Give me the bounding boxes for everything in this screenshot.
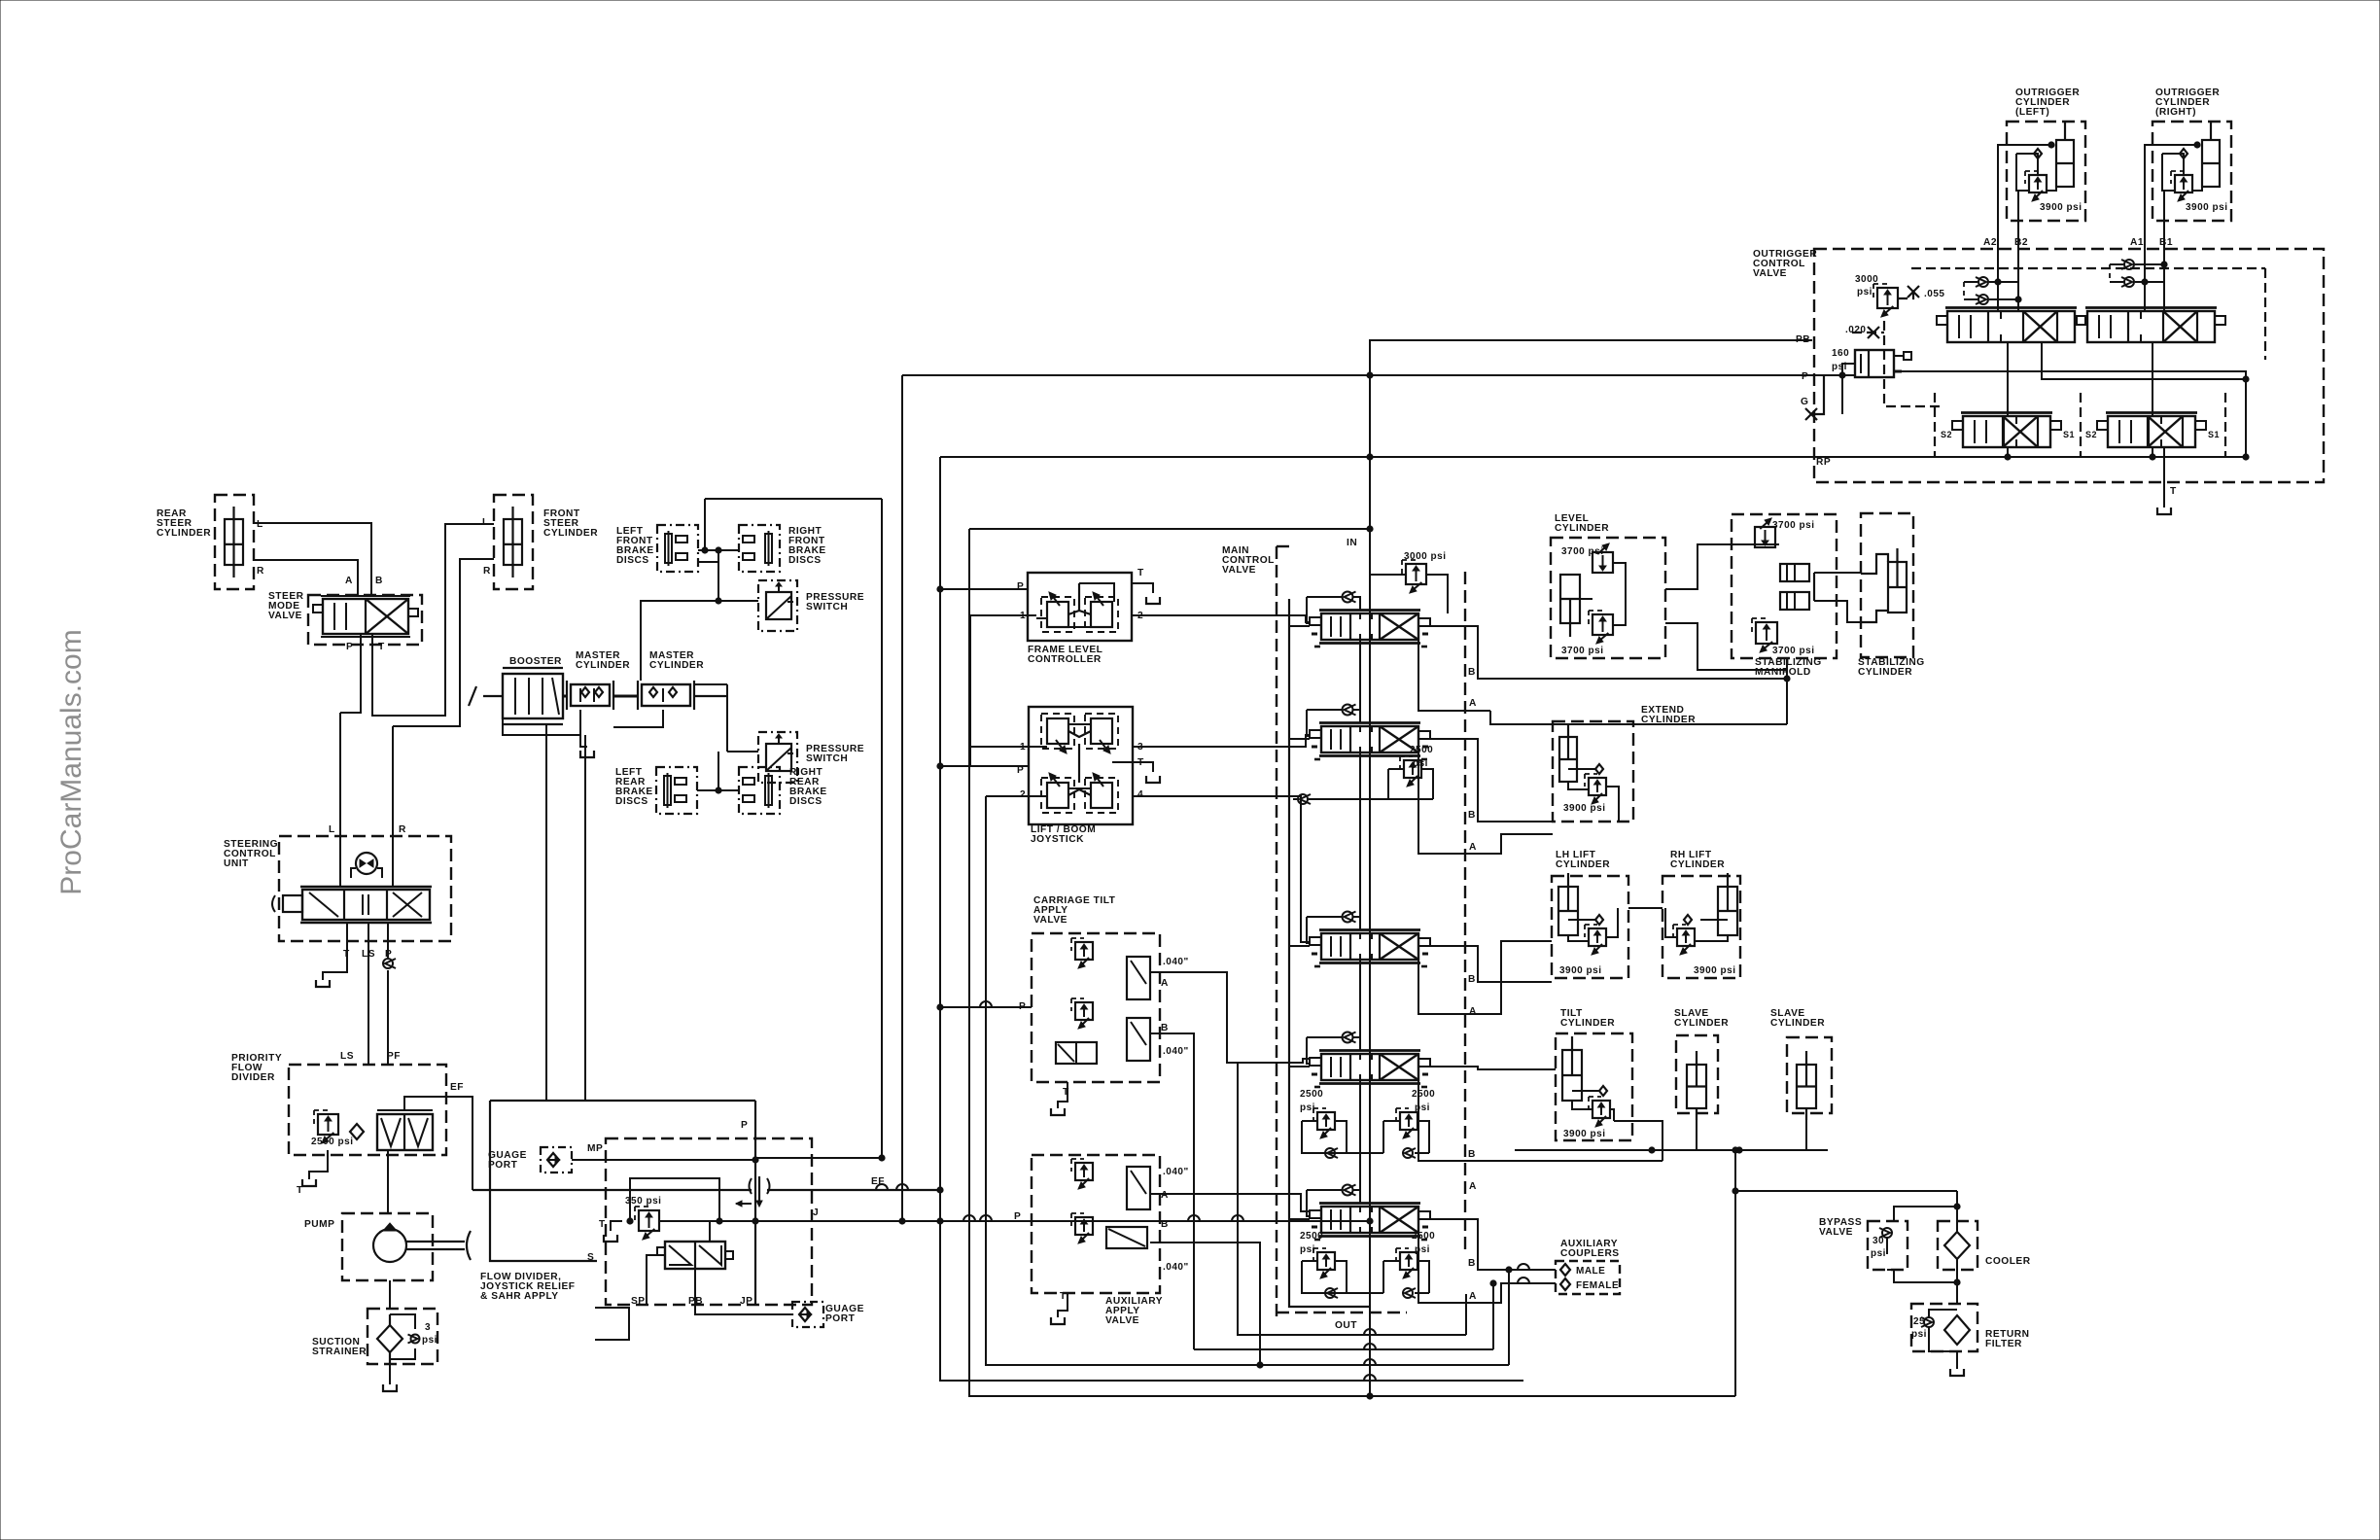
pump bbox=[342, 1213, 471, 1280]
svg-text:psi: psi bbox=[1911, 1329, 1927, 1340]
wire spool1 A down bbox=[1418, 640, 1490, 711]
wire s5r loop bbox=[1382, 1261, 1384, 1293]
svg-text:CYLINDER: CYLINDER bbox=[649, 660, 704, 671]
ocv box bbox=[1814, 249, 2324, 482]
svg-text:S1: S1 bbox=[2208, 430, 2220, 439]
return filter bbox=[1911, 1304, 1977, 1351]
wire aux P stub bbox=[1011, 1220, 1032, 1222]
slave cylinder 1 bbox=[1676, 1035, 1718, 1120]
wire 1 vertical bbox=[969, 615, 971, 766]
svg-text:B: B bbox=[1468, 667, 1476, 678]
wire s4l relief in bbox=[1302, 1120, 1317, 1122]
svg-text:SP: SP bbox=[631, 1296, 646, 1307]
svg-text:B2: B2 bbox=[2014, 237, 2028, 248]
wire valve top bbox=[709, 1221, 711, 1242]
check block 1 bbox=[1780, 564, 1809, 581]
svg-text:B: B bbox=[1468, 1258, 1476, 1269]
riser male bbox=[1508, 1270, 1510, 1365]
check s2 loop bbox=[1298, 794, 1311, 804]
label front steer cylinder bbox=[543, 508, 598, 539]
slave1 body bbox=[1687, 1051, 1706, 1108]
relief valve bbox=[2171, 171, 2192, 201]
svg-text:VALVE: VALVE bbox=[1819, 1227, 1853, 1238]
wire P line bbox=[902, 374, 1812, 376]
svg-text:S1: S1 bbox=[2063, 430, 2075, 439]
svg-text:B: B bbox=[1468, 1149, 1476, 1160]
wire spool2 A bbox=[1418, 752, 1553, 854]
svg-text:VALVE: VALVE bbox=[1753, 268, 1787, 279]
wire between rear discs bbox=[697, 789, 739, 791]
mcv dashed left bbox=[1276, 546, 1277, 1318]
wire sm-sc bot bbox=[1814, 601, 1861, 622]
svg-text:G: G bbox=[1801, 397, 1808, 407]
slave2 body bbox=[1797, 1051, 1816, 1108]
svg-text:2500: 2500 bbox=[1300, 1231, 1323, 1242]
svg-text:COOLER: COOLER bbox=[1985, 1256, 2031, 1267]
svg-text:VALVE: VALVE bbox=[268, 611, 302, 621]
wire s5l relief out bbox=[1335, 1261, 1347, 1293]
svg-text:UNIT: UNIT bbox=[224, 858, 249, 869]
ct valve T tank bbox=[1058, 1082, 1067, 1108]
tank bbox=[1146, 776, 1160, 783]
svg-text:.020: .020 bbox=[1845, 325, 1866, 335]
svg-text:CYLINDER: CYLINDER bbox=[1670, 859, 1725, 870]
wire s4l relief out bbox=[1335, 1121, 1347, 1153]
label guage port mp bbox=[488, 1150, 527, 1171]
label master cylinder 1 bbox=[576, 650, 630, 671]
steering control unit bbox=[272, 836, 451, 941]
outrigger cylinder (LEFT) bbox=[2007, 122, 2085, 221]
bypass valve bbox=[1868, 1221, 1907, 1270]
prop valve A bbox=[1127, 957, 1150, 999]
wire tilt out bbox=[1614, 1121, 1662, 1161]
relief 3700 sm top bbox=[1755, 518, 1775, 547]
svg-text:CYLINDER: CYLINDER bbox=[1674, 1018, 1729, 1029]
tank bbox=[383, 1384, 397, 1391]
svg-text:VALVE: VALVE bbox=[1033, 915, 1067, 926]
svg-text:B: B bbox=[1161, 1219, 1169, 1230]
wires around 3000 relief bbox=[1852, 332, 1884, 333]
wire spool in bbox=[1289, 625, 1310, 627]
wire check feed bbox=[1307, 916, 1342, 918]
svg-text:VALVE: VALVE bbox=[1105, 1315, 1139, 1326]
label stabilizing manifold bbox=[1755, 657, 1822, 678]
pilot valve bbox=[1041, 592, 1074, 632]
relief tilt bbox=[1589, 1097, 1610, 1127]
svg-text:PORT: PORT bbox=[488, 1160, 518, 1171]
svg-text:psi: psi bbox=[1857, 287, 1872, 297]
breakaway coupling EF bbox=[758, 1176, 760, 1206]
check valve spool 1 bbox=[1343, 592, 1356, 603]
wire RP line bbox=[940, 456, 1812, 458]
wire spool5 B bbox=[1430, 1219, 1556, 1270]
svg-text:CONTROLLER: CONTROLLER bbox=[1028, 654, 1102, 665]
extend cyl body bbox=[1559, 723, 1577, 782]
wire lh-rh bbox=[1628, 907, 1662, 909]
svg-text:IN: IN bbox=[1347, 538, 1357, 548]
label main control valve bbox=[1222, 545, 1275, 576]
svg-text:3000: 3000 bbox=[1855, 274, 1878, 285]
svg-text:MP: MP bbox=[587, 1143, 603, 1154]
svg-text:P: P bbox=[1802, 371, 1808, 382]
relief valve bbox=[2025, 171, 2047, 201]
valve spool bbox=[1310, 1204, 1430, 1241]
svg-text:psi: psi bbox=[1415, 1102, 1430, 1113]
wire 1 to FLC bbox=[970, 614, 1036, 616]
svg-text:3700 psi: 3700 psi bbox=[1561, 546, 1603, 557]
svg-text:psi: psi bbox=[1300, 1244, 1315, 1255]
svg-text:CYLINDER: CYLINDER bbox=[157, 528, 211, 539]
wire T joystick bbox=[1112, 762, 1153, 772]
label outrigger cylinder right bbox=[2155, 87, 2220, 118]
stabilizing cylinder bbox=[1861, 513, 1913, 657]
wire T ocv bbox=[2163, 447, 2165, 507]
wire disc junction down bbox=[717, 550, 719, 601]
svg-text:.040": .040" bbox=[1163, 1046, 1189, 1057]
label slave cylinder 2 bbox=[1770, 1008, 1825, 1029]
svg-text:BOOSTER: BOOSTER bbox=[509, 656, 562, 667]
label return filter bbox=[1985, 1329, 2029, 1349]
orifice .020 bbox=[1868, 327, 1879, 338]
svg-text:B: B bbox=[1468, 810, 1476, 821]
svg-text:CYLINDER: CYLINDER bbox=[1555, 523, 1609, 534]
mcv dashed right bbox=[1464, 572, 1466, 1254]
label lift boom joystick bbox=[1031, 824, 1096, 845]
wire mc2 to ps2 bbox=[726, 684, 728, 752]
label pressure switch 1 bbox=[806, 592, 864, 612]
lh lift cylinder bbox=[1552, 873, 1628, 978]
label guage port bbox=[825, 1304, 864, 1324]
wire spool in bbox=[1289, 1066, 1310, 1067]
wire s4r relief out bbox=[1417, 1121, 1429, 1153]
svg-text:160: 160 bbox=[1832, 348, 1849, 359]
level cyl body bbox=[1560, 575, 1580, 637]
ocv inner dash 1 bbox=[1884, 321, 1944, 406]
svg-text:A: A bbox=[1161, 978, 1169, 989]
SCU T drop to tank bbox=[323, 923, 347, 980]
svg-text:STRAINER: STRAINER bbox=[312, 1347, 367, 1357]
level cylinder bbox=[1551, 538, 1665, 658]
tank bbox=[1950, 1369, 1964, 1376]
relief 2500 s5r bbox=[1396, 1248, 1417, 1278]
wire to bypass bbox=[1894, 1207, 1957, 1221]
check valve spool 4 bbox=[1343, 1032, 1356, 1043]
slave cylinder 2 bbox=[1787, 1037, 1832, 1120]
priority flow divider bbox=[289, 1065, 446, 1155]
label right front brake discs bbox=[788, 526, 826, 566]
svg-text:A: A bbox=[1469, 1181, 1477, 1192]
suction strainer bbox=[367, 1309, 437, 1364]
wire check to spool bbox=[1353, 597, 1360, 611]
svg-text:S2: S2 bbox=[2085, 430, 2097, 439]
wire aux B bbox=[1150, 1242, 1260, 1365]
brake disc bbox=[656, 767, 697, 814]
wire rh check bbox=[1700, 919, 1728, 921]
ocv inner dash top bbox=[1911, 267, 2265, 269]
label rear steer cylinder bbox=[157, 508, 211, 539]
reducing valve 2 bbox=[1071, 998, 1093, 1029]
label outrigger cylinder left bbox=[2015, 87, 2080, 118]
outrigger cylinder (RIGHT) bbox=[2152, 122, 2231, 221]
trunk vertical x907 bbox=[705, 498, 882, 500]
label pressure switch 2 bbox=[806, 744, 864, 764]
label tilt cylinder bbox=[1560, 1008, 1615, 1029]
wire out 1 bbox=[1238, 1063, 1466, 1335]
wire 2 to MCV bbox=[1132, 615, 1310, 622]
wire J long bbox=[659, 1220, 1370, 1222]
FLC T drop bbox=[1132, 583, 1153, 593]
wire P to FLC bbox=[940, 588, 1028, 590]
check block 2 bbox=[1780, 592, 1809, 610]
svg-text:3000 psi: 3000 psi bbox=[1404, 551, 1446, 562]
check valve SCU bbox=[383, 959, 396, 968]
wire feed corner bbox=[1307, 1190, 1310, 1216]
G orifice bbox=[1805, 375, 1824, 420]
tank bbox=[1146, 597, 1160, 604]
wire tilt check bbox=[1572, 1090, 1599, 1092]
wire booster down to flow divider block bbox=[545, 724, 547, 1101]
svg-text:OUT: OUT bbox=[1335, 1320, 1357, 1331]
check valve spool 2 bbox=[1343, 705, 1356, 716]
wire MP bbox=[572, 1159, 755, 1161]
master cylinder 1 bbox=[567, 681, 613, 710]
svg-text:A1: A1 bbox=[2130, 237, 2144, 248]
sahr valve bbox=[657, 1242, 733, 1269]
svg-text:2500 psi: 2500 psi bbox=[311, 1137, 353, 1147]
wire tilt relief out bbox=[1610, 1109, 1614, 1121]
wire A bbox=[1150, 972, 1310, 1063]
svg-text:T: T bbox=[1137, 568, 1144, 578]
svg-text:R: R bbox=[399, 824, 406, 835]
front steer cylinder box bbox=[494, 495, 533, 589]
wire spool-s2 r bbox=[2152, 342, 2153, 416]
wire slave bottom bbox=[1515, 1149, 1828, 1151]
ocv s2 box l bbox=[1934, 393, 1936, 457]
svg-text:PORT: PORT bbox=[825, 1313, 856, 1324]
valve spool bbox=[1310, 723, 1430, 760]
svg-text:2500: 2500 bbox=[1410, 745, 1433, 755]
outrigger valve spool bbox=[2097, 413, 2206, 448]
relief 350 psi bbox=[635, 1207, 659, 1240]
wire s5r relief in bbox=[1383, 1260, 1400, 1262]
check valve spool 3 bbox=[1343, 912, 1356, 923]
svg-text:CYLINDER: CYLINDER bbox=[1560, 1018, 1615, 1029]
svg-text:CYLINDER: CYLINDER bbox=[1770, 1018, 1825, 1029]
wire to 160 valve bbox=[1842, 364, 1855, 375]
wire bypass out bbox=[1887, 1270, 1957, 1282]
brake disc bbox=[739, 767, 780, 814]
relief 3700 bottom bbox=[1589, 611, 1613, 644]
brake disc bbox=[739, 525, 780, 572]
wire aux T bbox=[1058, 1293, 1067, 1317]
label left rear brake discs bbox=[615, 767, 653, 807]
label master cylinder 2 bbox=[649, 650, 704, 671]
wire mc1 to ps1 bbox=[641, 601, 758, 681]
gauge port bbox=[792, 1302, 823, 1327]
wire A1 bbox=[2144, 160, 2146, 311]
wire spool4 B bbox=[1430, 1067, 1556, 1069]
svg-text:3900 psi: 3900 psi bbox=[1563, 1129, 1605, 1139]
pilot valve bbox=[1085, 714, 1118, 753]
svg-text:T: T bbox=[297, 1185, 303, 1196]
wire tilt relief in bbox=[1572, 1101, 1592, 1109]
ocv check R2 bbox=[2121, 277, 2134, 287]
tank bbox=[580, 751, 594, 757]
wire gallery bbox=[1359, 1080, 1361, 1204]
svg-text:CYLINDER: CYLINDER bbox=[1641, 715, 1696, 725]
tank bbox=[2157, 507, 2171, 514]
ocv check L1 bbox=[1976, 277, 1988, 287]
label left front brake discs bbox=[616, 526, 654, 566]
wire ps2 junction bbox=[717, 752, 719, 790]
label level cylinder bbox=[1555, 513, 1609, 534]
svg-text:SWITCH: SWITCH bbox=[806, 753, 848, 764]
wire G branch bbox=[1841, 375, 1843, 414]
relief 3700 sm bottom bbox=[1752, 618, 1777, 652]
wire spool3 A bbox=[1418, 941, 1552, 1014]
svg-text:B: B bbox=[1468, 974, 1476, 985]
svg-text:30: 30 bbox=[1872, 1236, 1884, 1246]
relief 2500 s4r bbox=[1396, 1108, 1417, 1138]
wire spool-s2 bbox=[2007, 342, 2009, 416]
orifice .055 bbox=[1907, 286, 1919, 297]
wire PB and main trunk bbox=[1370, 340, 1812, 1232]
pressure switch bbox=[758, 732, 797, 783]
wire spool out r bbox=[2042, 342, 2246, 379]
frame level controller bbox=[1028, 573, 1132, 641]
orifice cross .055 bbox=[1907, 286, 1919, 297]
pump suction line bbox=[389, 1280, 391, 1309]
svg-text:2500: 2500 bbox=[1300, 1089, 1323, 1100]
outrigger valve spool bbox=[1952, 413, 2061, 448]
relief rh bbox=[1673, 925, 1695, 955]
wire tilt manifold bbox=[1501, 1160, 1662, 1162]
svg-text:psi: psi bbox=[1413, 758, 1428, 769]
label auxiliary apply valve bbox=[1105, 1296, 1163, 1326]
EF wire from PFD bbox=[404, 1097, 472, 1190]
wire rh relief in bbox=[1695, 935, 1728, 941]
relief lh bbox=[1585, 925, 1606, 955]
prop valve A2 bbox=[1127, 1167, 1150, 1209]
T tank inside bbox=[611, 1221, 622, 1231]
wire slave2 drop bbox=[1805, 1120, 1807, 1150]
label extend cylinder bbox=[1641, 705, 1696, 725]
wire check to spool bbox=[1353, 710, 1360, 723]
wire feed corner bbox=[1307, 917, 1310, 943]
svg-text:A2: A2 bbox=[1983, 237, 1997, 248]
wire SP drop bbox=[647, 1255, 665, 1305]
wire rear cyl L to steer mode valve B bbox=[254, 523, 371, 596]
svg-text:4: 4 bbox=[1137, 789, 1143, 800]
wire IN top bbox=[969, 528, 1370, 530]
svg-text:P: P bbox=[1017, 581, 1024, 592]
cooler bbox=[1938, 1221, 1977, 1270]
svg-text:.040": .040" bbox=[1163, 957, 1189, 967]
wire check to spool bbox=[1353, 917, 1360, 930]
tank bbox=[604, 1235, 617, 1242]
stabilizing manifold bbox=[1732, 514, 1837, 658]
svg-text:JP: JP bbox=[740, 1296, 752, 1307]
svg-text:T: T bbox=[599, 1219, 606, 1230]
svg-text:DISCS: DISCS bbox=[789, 796, 822, 807]
svg-text:2: 2 bbox=[1020, 789, 1026, 800]
wire out 2 bbox=[1194, 1348, 1493, 1350]
wire check feed bbox=[1307, 709, 1342, 711]
valve spool bbox=[1310, 1051, 1430, 1088]
tank bbox=[1051, 1317, 1065, 1324]
wire return to cooler bbox=[1735, 1190, 1957, 1192]
strainer to tank bbox=[389, 1364, 391, 1384]
PFD tank bbox=[309, 1150, 328, 1179]
wire P carriage bbox=[940, 1006, 1032, 1008]
relief 2500psi PFD bbox=[314, 1110, 338, 1143]
160 psi valve bbox=[1855, 350, 1911, 377]
wire sm-sc top bbox=[1814, 572, 1861, 574]
tilt cyl body bbox=[1562, 1036, 1582, 1101]
pilot valve bbox=[1085, 773, 1118, 813]
wire s4 loop bbox=[1302, 1121, 1383, 1153]
mcv dashed bottom bbox=[1277, 1312, 1407, 1313]
label steering control unit bbox=[224, 839, 278, 869]
svg-text:3900 psi: 3900 psi bbox=[2040, 202, 2082, 213]
wire S loop bbox=[595, 1308, 629, 1340]
svg-text:3: 3 bbox=[425, 1322, 431, 1333]
wire mc bottom link bbox=[613, 710, 663, 727]
svg-text:& SAHR APPLY: & SAHR APPLY bbox=[480, 1291, 559, 1302]
label flow divider joystick relief sahr apply bbox=[480, 1272, 576, 1302]
wire spool3 B bbox=[1430, 946, 1552, 982]
svg-text:CYLINDER: CYLINDER bbox=[576, 660, 630, 671]
svg-text:PB: PB bbox=[1796, 334, 1810, 345]
ocv s2 box r bbox=[2080, 393, 2082, 457]
svg-text:B1: B1 bbox=[2159, 237, 2173, 248]
wire relief out bbox=[1426, 575, 1448, 613]
gauge port bbox=[541, 1147, 572, 1172]
wire s4r relief in bbox=[1383, 1120, 1400, 1122]
wire spool1 B bbox=[1430, 626, 1787, 679]
wire right rail up bbox=[1734, 1150, 1736, 1396]
extend cylinder bbox=[1553, 721, 1633, 822]
svg-text:psi: psi bbox=[1871, 1248, 1886, 1259]
brake disc bbox=[657, 525, 698, 572]
label rh lift cylinder bbox=[1670, 850, 1725, 870]
wire lh check bbox=[1568, 919, 1595, 921]
svg-text:PF: PF bbox=[387, 1051, 401, 1062]
label suction strainer bbox=[312, 1337, 367, 1357]
svg-text:A: A bbox=[1469, 1291, 1477, 1302]
label slave cylinder 1 bbox=[1674, 1008, 1729, 1029]
relief 2500 s4l bbox=[1313, 1108, 1335, 1138]
booster bbox=[469, 668, 563, 724]
svg-text:3700 psi: 3700 psi bbox=[1772, 520, 1814, 531]
PF to pump line down bbox=[387, 1150, 389, 1213]
wire between front discs bbox=[698, 549, 739, 551]
svg-text:3900 psi: 3900 psi bbox=[1694, 965, 1735, 976]
check s4r bbox=[1403, 1148, 1416, 1158]
wire P vertical bbox=[754, 1101, 756, 1305]
svg-text:CYLINDER: CYLINDER bbox=[543, 528, 598, 539]
wire level-sm top bbox=[1665, 544, 1779, 589]
wire b to sm riser bbox=[1786, 658, 1788, 724]
svg-text:VALVE: VALVE bbox=[1222, 565, 1256, 576]
wire s2 loop bbox=[1388, 769, 1433, 799]
EF breakaway symbol bbox=[472, 1176, 943, 1207]
svg-text:L: L bbox=[257, 519, 263, 530]
wire into cooler bbox=[1956, 1191, 1958, 1232]
prop valve B bbox=[1127, 1018, 1150, 1061]
wire spool in bbox=[1289, 738, 1310, 740]
ocv check L2 bbox=[1976, 295, 1988, 304]
